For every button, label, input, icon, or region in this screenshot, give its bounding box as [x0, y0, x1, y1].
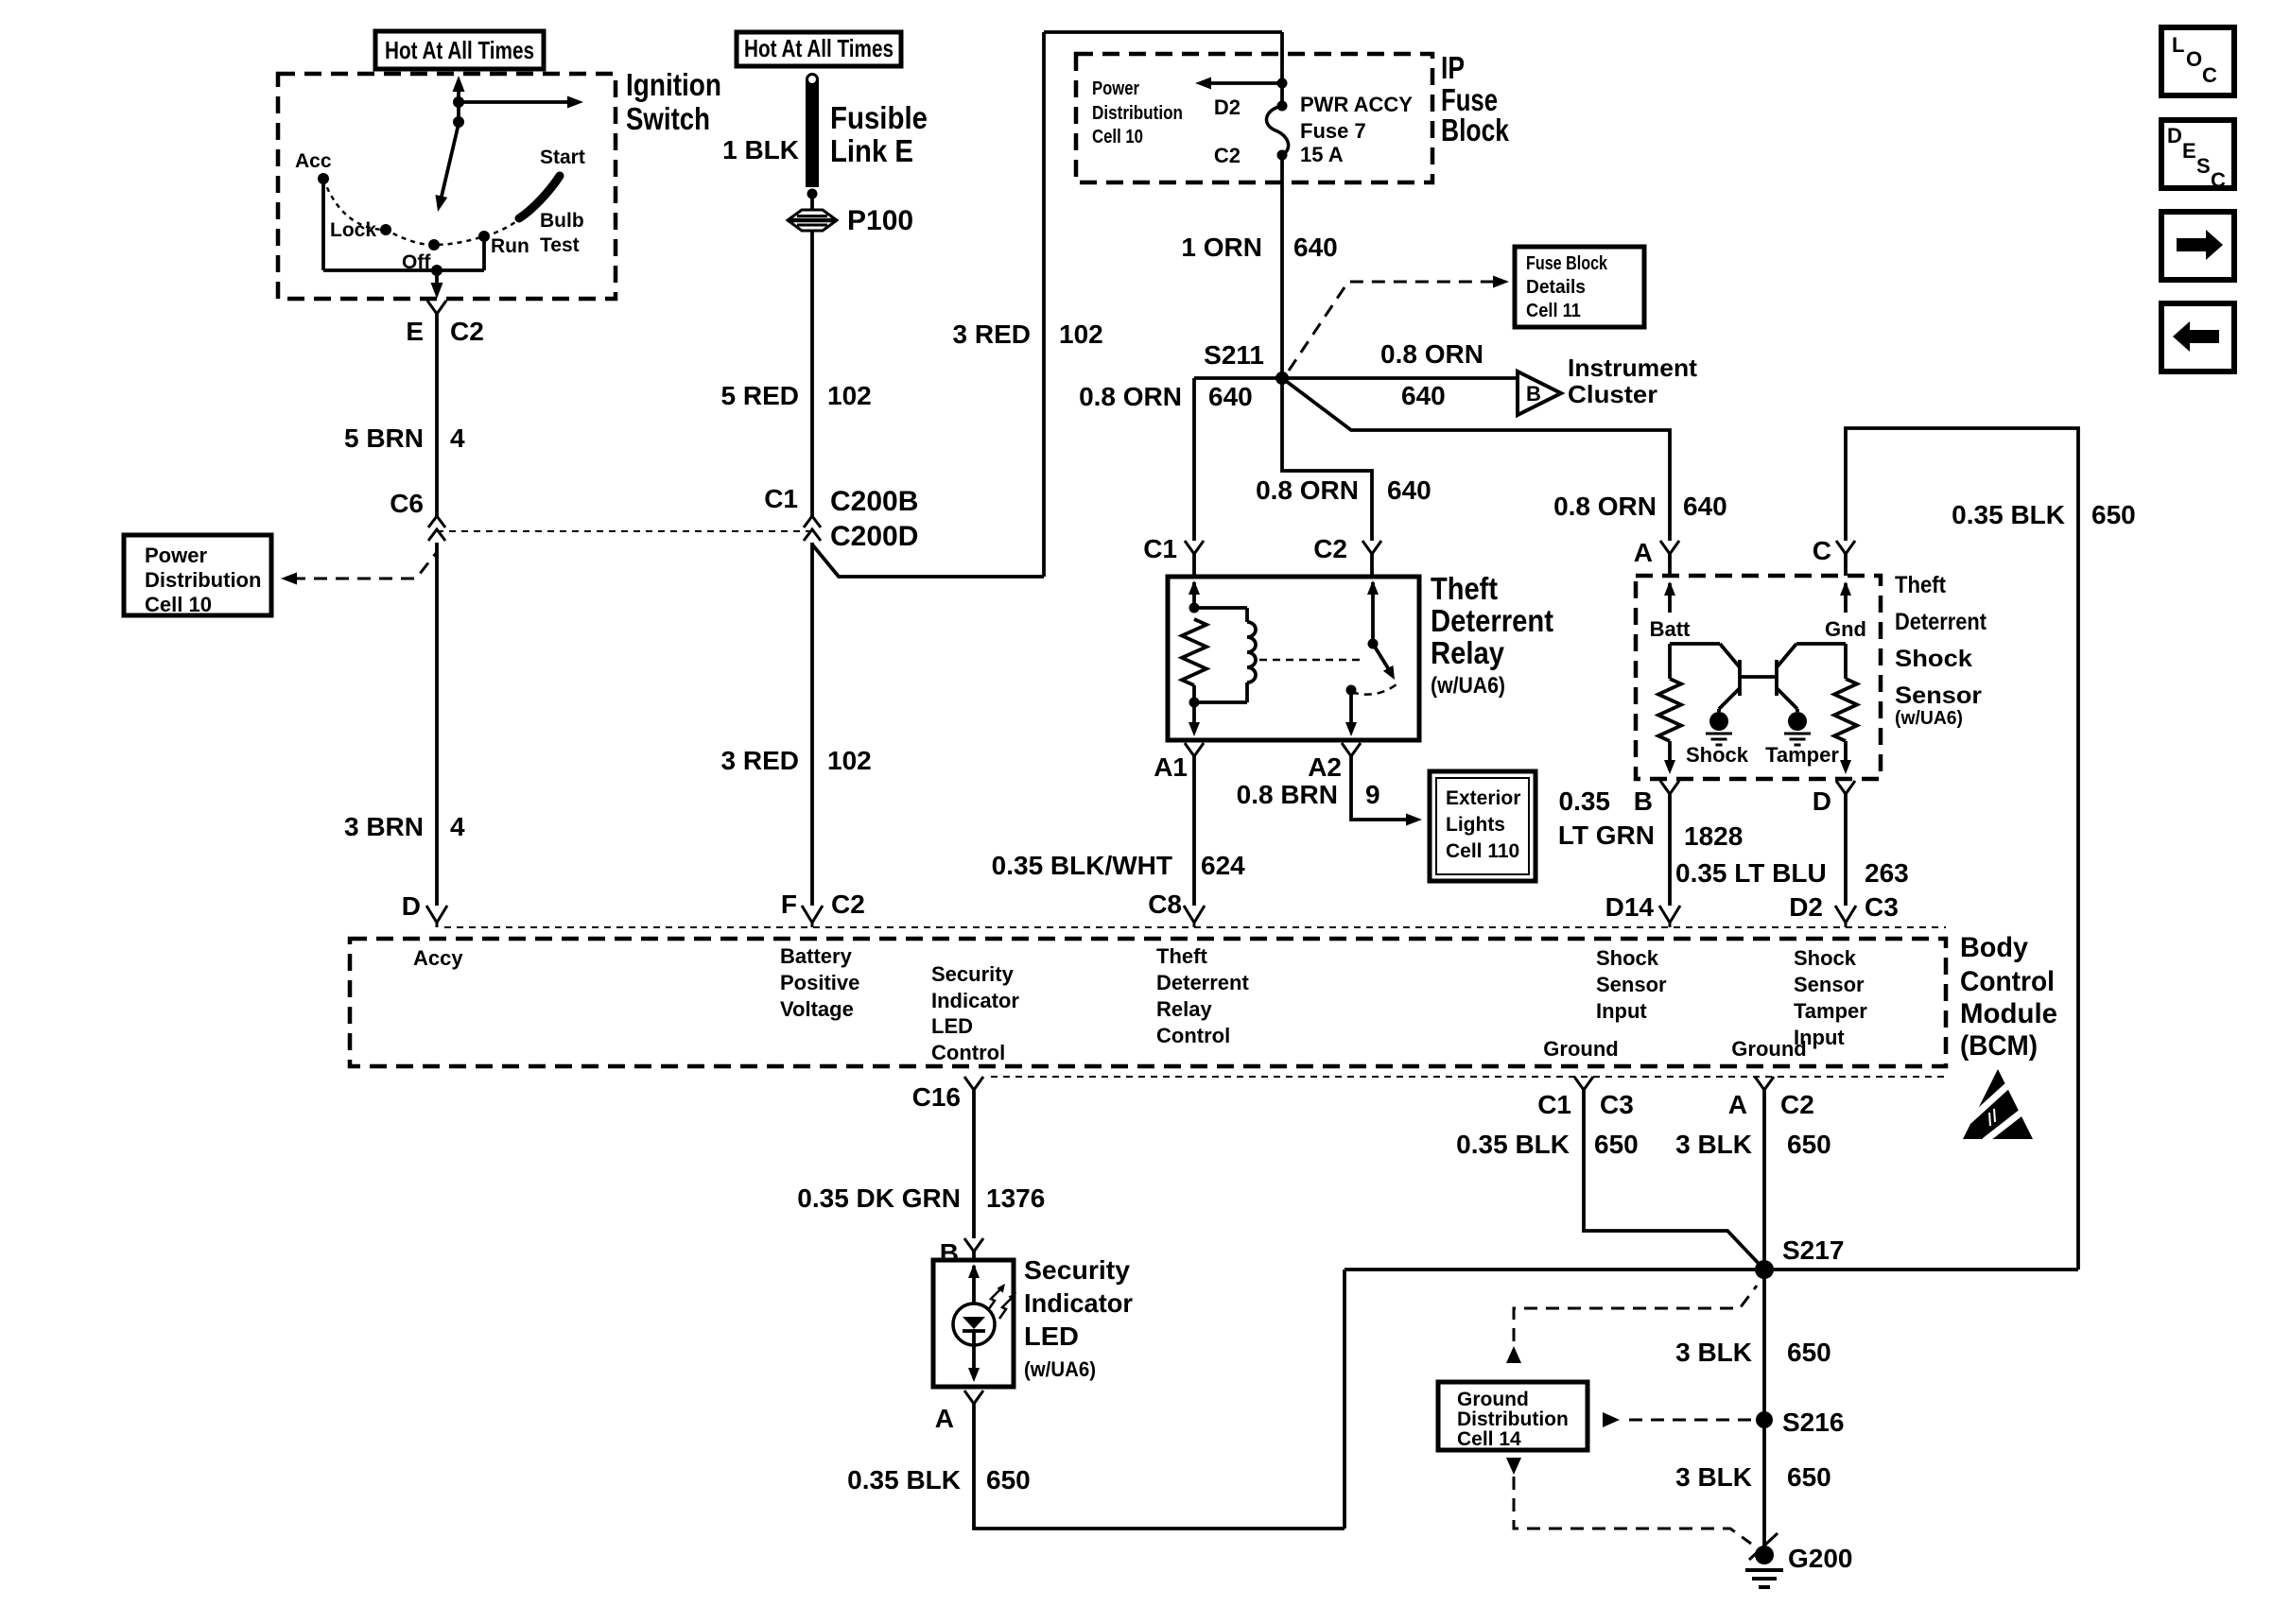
svg-text:Gnd: Gnd — [1825, 617, 1866, 641]
svg-text:Module: Module — [1960, 998, 2057, 1029]
svg-text:Bulb: Bulb — [540, 210, 584, 232]
reference box Ground Distribution Cell 14 — [1438, 1382, 1588, 1450]
theft deterrent shock sensor dashed box — [1636, 576, 1881, 779]
svg-text:650: 650 — [2091, 500, 2136, 529]
arrow into exterior lights box — [1406, 814, 1422, 826]
svg-text:1 ORN: 1 ORN — [1181, 233, 1262, 262]
svg-text:C200B: C200B — [830, 486, 918, 517]
wire batt node to resistor — [1668, 644, 1672, 679]
connector P100 symbol — [788, 210, 837, 231]
svg-text:IP: IP — [1441, 50, 1465, 85]
node splice S216 — [1756, 1411, 1773, 1428]
svg-text:Lock: Lock — [330, 219, 376, 241]
wire 0.8 BRN 9 jog to exterior lights — [1351, 756, 1409, 820]
node relay coil top — [1189, 603, 1200, 613]
svg-text:Distribution: Distribution — [1092, 103, 1183, 124]
security indicator LED box — [933, 1260, 1014, 1387]
wire from Run contact down — [482, 236, 486, 270]
svg-text:C6: C6 — [390, 489, 424, 518]
svg-text:(w/UA6): (w/UA6) — [1431, 673, 1505, 699]
svg-text:C2: C2 — [1214, 144, 1241, 167]
resistor shock right — [1834, 679, 1857, 741]
svg-text:Voltage: Voltage — [780, 997, 854, 1021]
thin dashed connector rail (BCM bottom) — [991, 1076, 1946, 1078]
fuse 7 element — [1266, 106, 1288, 155]
dashed... solid arrow to power distribution cell — [1206, 81, 1280, 85]
svg-text:Relay: Relay — [1156, 997, 1212, 1021]
dashed reference path upper (to S217) — [1514, 1286, 1757, 1363]
wire shock right resistor to pin D — [1844, 741, 1848, 762]
svg-text:C3: C3 — [1865, 892, 1899, 922]
svg-text:Lights: Lights — [1446, 814, 1505, 836]
svg-text:3 BLK: 3 BLK — [1675, 1338, 1752, 1367]
svg-text:640: 640 — [1387, 475, 1431, 505]
instrument cluster connector triangle — [1518, 371, 1561, 415]
svg-text:C1: C1 — [764, 484, 798, 513]
svg-text:Control: Control — [1960, 966, 2055, 997]
svg-text:Cell 10: Cell 10 — [1092, 127, 1143, 147]
pin C connector at shock sensor — [1836, 541, 1855, 554]
power feed box 'Hot At All Times' (battery) — [737, 32, 901, 66]
svg-text:Input: Input — [1596, 999, 1647, 1023]
svg-text:Positive: Positive — [780, 971, 859, 994]
dashed reference arrow to Power Distribution — [292, 552, 437, 579]
ignition thick arc Run-Start — [519, 176, 560, 218]
node ignition output junction — [431, 265, 442, 276]
svg-text:Relay: Relay — [1431, 635, 1505, 670]
svg-text:Deterrent: Deterrent — [1895, 609, 1987, 635]
wire relay A1 internal — [1192, 702, 1196, 724]
wire fusible link to P100 — [810, 194, 814, 211]
pin C2 connector at relay — [1362, 541, 1381, 554]
svg-text:C2: C2 — [1313, 534, 1347, 563]
node splice S211 — [1275, 371, 1289, 385]
svg-text:A1: A1 — [1154, 752, 1188, 782]
svg-text:4: 4 — [450, 812, 465, 841]
svg-text:102: 102 — [827, 746, 872, 775]
svg-text:C16: C16 — [912, 1082, 961, 1112]
svg-text:Ignition: Ignition — [626, 67, 721, 102]
ground shock element — [1709, 712, 1728, 731]
ground tamper element — [1788, 712, 1807, 731]
wire 0.35 LT BLU 263 to BCM D2 — [1844, 794, 1848, 906]
wire 1 ORN 640 fuse output — [1280, 155, 1284, 378]
relay switch arm — [1373, 644, 1390, 671]
pin A2 connector at relay — [1342, 743, 1361, 756]
wire relay C1 entry — [1192, 554, 1196, 577]
body control module dashed box — [350, 939, 1946, 1066]
wire S217 ground bus — [1345, 1268, 2078, 1271]
svg-text:Fusible: Fusible — [830, 100, 928, 135]
wire coil top link — [1194, 606, 1247, 610]
node relay common contact — [1346, 685, 1357, 696]
dashed reference path lower (to G200) — [1514, 1477, 1751, 1544]
svg-text:S211: S211 — [1204, 340, 1264, 370]
pin B connector at shock sensor — [1660, 781, 1679, 794]
wire fuse block riser — [1042, 32, 1046, 577]
svg-text:15 A: 15 A — [1300, 143, 1344, 166]
wire ignition feed stem — [457, 87, 460, 124]
svg-text:640: 640 — [1401, 381, 1446, 410]
wire 0.8 ORN 640 drop to relay C1 — [1192, 378, 1196, 541]
svg-text:P100: P100 — [847, 205, 913, 236]
wire relay C2 entry — [1370, 554, 1374, 577]
pin F connector at BCM — [802, 906, 823, 923]
svg-text:LT GRN: LT GRN — [1558, 821, 1655, 850]
svg-text:C1: C1 — [1537, 1090, 1571, 1119]
svg-text:650: 650 — [1787, 1130, 1831, 1159]
svg-text:Fuse 7: Fuse 7 — [1300, 119, 1366, 143]
svg-text:0.8 BRN: 0.8 BRN — [1237, 780, 1338, 809]
svg-text:Indicator: Indicator — [1024, 1288, 1133, 1318]
svg-text:Security: Security — [1024, 1255, 1130, 1285]
svg-text:Shock: Shock — [1596, 946, 1659, 970]
svg-text:O: O — [2186, 47, 2202, 71]
wire shock left resistor to pin B — [1668, 741, 1672, 762]
wire 0.35 BLK 650 BCM C1 ground — [1584, 1090, 1764, 1270]
svg-text:S217: S217 — [1782, 1235, 1844, 1265]
svg-text:Shock: Shock — [1686, 743, 1749, 767]
svg-text:0.8 ORN: 0.8 ORN — [1553, 492, 1657, 521]
node relay coil bottom — [1189, 698, 1200, 708]
svg-text:Sensor: Sensor — [1596, 973, 1667, 996]
svg-text:3 RED: 3 RED — [721, 746, 799, 775]
svg-text:Cell 14: Cell 14 — [1457, 1428, 1521, 1450]
svg-text:C2: C2 — [450, 317, 484, 346]
svg-text:D14: D14 — [1605, 892, 1655, 922]
node below fusible link — [807, 189, 818, 199]
svg-text:Deterrent: Deterrent — [1431, 603, 1553, 638]
wire 0.35 LT GRN 1828 to BCM D14 — [1668, 794, 1672, 906]
thin dashed connector rail (BCM top) — [444, 926, 1946, 928]
svg-text:263: 263 — [1865, 858, 1909, 888]
svg-text:Power: Power — [145, 544, 207, 567]
ignition rotor dashed arc — [323, 179, 515, 245]
wire 3 BLK 650 S216 to G200 — [1762, 1420, 1766, 1555]
svg-text:C: C — [2211, 168, 2226, 192]
svg-text:Exterior: Exterior — [1446, 787, 1520, 809]
button prev arrow — [2161, 303, 2234, 371]
power feed box 'Hot At All Times' (ignition) — [375, 31, 544, 69]
svg-text:1376: 1376 — [986, 1183, 1045, 1213]
arrow relay C1 internal up — [1189, 580, 1200, 595]
wire ignition output bus — [323, 268, 484, 272]
svg-text:650: 650 — [1787, 1462, 1831, 1492]
svg-text:Cell 10: Cell 10 — [145, 593, 212, 616]
svg-text:C: C — [1813, 536, 1831, 565]
connector break C6 — [428, 516, 445, 527]
svg-text:Theft: Theft — [1895, 572, 1947, 598]
reference box Fuse Block Details Cell 11 — [1515, 247, 1644, 327]
svg-text:Control: Control — [931, 1041, 1005, 1064]
svg-text:Cluster: Cluster — [1568, 380, 1657, 408]
svg-text:Start: Start — [540, 147, 585, 168]
svg-text:Acc: Acc — [295, 150, 332, 172]
wire fuse block top run — [1044, 30, 1282, 34]
svg-text:1828: 1828 — [1684, 821, 1743, 851]
svg-text:0.35 LT BLU: 0.35 LT BLU — [1675, 858, 1827, 888]
svg-text:9: 9 — [1365, 780, 1380, 809]
svg-text:G200: G200 — [1788, 1544, 1853, 1573]
svg-text:C2: C2 — [831, 890, 865, 919]
svg-text:Block: Block — [1441, 112, 1510, 147]
pin C16 connector under BCM — [964, 1077, 983, 1090]
wire shock C entry — [1844, 554, 1848, 576]
svg-text:Details: Details — [1526, 277, 1586, 298]
node ignition feed lower — [453, 116, 464, 128]
svg-text:Theft: Theft — [1431, 571, 1498, 606]
svg-text:Ground: Ground — [1543, 1037, 1618, 1061]
svg-text:Cell 110: Cell 110 — [1446, 840, 1519, 862]
pin D connector at shock sensor — [1836, 781, 1855, 794]
wire 0.35 BLK/WHT 624 to BCM C8 — [1192, 756, 1196, 906]
svg-text:Tamper: Tamper — [1765, 743, 1839, 767]
svg-text:A: A — [1634, 538, 1653, 567]
svg-text:102: 102 — [1059, 320, 1103, 349]
arrow ignition branch right — [567, 96, 583, 109]
pin D2 connector at BCM — [1835, 906, 1856, 923]
wire ignition output stem — [435, 270, 439, 288]
wire LED B entry — [972, 1252, 976, 1260]
svg-text:S216: S216 — [1782, 1408, 1844, 1437]
resistor shock left — [1658, 679, 1681, 741]
dashed actuator link — [1259, 659, 1362, 662]
svg-text:E: E — [406, 317, 424, 346]
svg-text:4: 4 — [450, 423, 465, 453]
button DESC — [2161, 120, 2234, 188]
svg-text:C3: C3 — [1600, 1090, 1634, 1119]
svg-text:650: 650 — [986, 1465, 1031, 1494]
svg-text:Distribution: Distribution — [1457, 1408, 1569, 1430]
svg-text:Ground: Ground — [1731, 1037, 1806, 1061]
wire gnd node to resistor — [1844, 644, 1848, 679]
svg-text:5 BRN: 5 BRN — [344, 423, 424, 453]
wire 0.35 DK GRN 1376 — [972, 1090, 976, 1238]
wire 3 BRN 4 segment — [435, 543, 439, 906]
button LOC — [2161, 27, 2234, 95]
ground G200 — [1755, 1546, 1774, 1564]
svg-text:0.35 BLK: 0.35 BLK — [1456, 1130, 1570, 1159]
svg-text:1 BLK: 1 BLK — [722, 135, 799, 164]
svg-text:640: 640 — [1683, 492, 1727, 521]
svg-text:0.35 BLK: 0.35 BLK — [1952, 500, 2065, 529]
svg-text:Instrument: Instrument — [1568, 354, 1697, 382]
svg-text:C2: C2 — [1780, 1090, 1814, 1119]
pin C1/C3 connector under BCM — [1574, 1077, 1593, 1090]
svg-text:Link E: Link E — [830, 133, 913, 168]
reference box Power Distribution Cell 10 (left) — [124, 535, 271, 615]
svg-text:A2: A2 — [1308, 752, 1342, 782]
arrow ignition output down — [431, 283, 443, 299]
wire shock A entry — [1668, 554, 1672, 576]
dashed switch travel arc — [1351, 684, 1397, 695]
wire S211 left branch — [1194, 376, 1282, 380]
svg-text:0.8 ORN: 0.8 ORN — [1256, 475, 1359, 505]
wire ignition feed branch right — [459, 100, 572, 104]
pin A/C2 connector under BCM — [1755, 1077, 1774, 1090]
svg-text:3 BLK: 3 BLK — [1675, 1130, 1752, 1159]
wire LED ground riser to S217 bus — [1343, 1270, 1346, 1529]
svg-text:Hot At All Times: Hot At All Times — [744, 34, 894, 62]
svg-text:Theft: Theft — [1156, 944, 1207, 968]
connector tick at G200 — [1749, 1533, 1778, 1560]
node fuse feed branch — [1277, 78, 1288, 89]
svg-text:0.35 BLK/WHT: 0.35 BLK/WHT — [992, 851, 1172, 880]
svg-text:624: 624 — [1201, 851, 1245, 880]
svg-text:A: A — [1728, 1090, 1747, 1119]
svg-text:0.8 ORN: 0.8 ORN — [1079, 382, 1182, 411]
arrow shock C internal up — [1840, 581, 1851, 596]
wire coil bottom link — [1245, 682, 1249, 702]
relay coil — [1247, 622, 1256, 682]
svg-text:D2: D2 — [1214, 95, 1241, 119]
svg-text:0.35 BLK: 0.35 BLK — [847, 1465, 961, 1494]
svg-text:Hot At All Times: Hot At All Times — [385, 36, 534, 64]
arrow shock A internal up — [1664, 581, 1675, 596]
svg-text:C200D: C200D — [830, 521, 918, 552]
svg-text:0.35: 0.35 — [1559, 786, 1611, 816]
ESD warning symbol — [1963, 1069, 2033, 1139]
svg-text:Sensor: Sensor — [1794, 973, 1865, 996]
node ignition feed upper — [453, 96, 464, 108]
node Lock contact — [380, 224, 391, 235]
pin D connector at BCM — [426, 906, 447, 923]
svg-text:0.35 DK GRN: 0.35 DK GRN — [797, 1183, 961, 1213]
wire S211 down-right jog to relay C2 — [1282, 378, 1372, 541]
svg-text:F: F — [781, 890, 797, 919]
svg-text:3 BLK: 3 BLK — [1675, 1462, 1752, 1492]
pin C8 connector at BCM — [1184, 906, 1205, 923]
node fuse terminal C2 — [1277, 150, 1288, 161]
node Acc contact — [318, 173, 329, 184]
svg-text:(w/UA6): (w/UA6) — [1024, 1357, 1096, 1381]
svg-text:Test: Test — [540, 234, 580, 256]
IP fuse block dashed outline — [1076, 54, 1432, 182]
wire branch C200 to fuse block riser — [812, 544, 1044, 577]
svg-text:640: 640 — [1293, 233, 1338, 262]
fusible link E body — [806, 79, 819, 187]
svg-text:C8: C8 — [1148, 890, 1182, 919]
svg-text:C: C — [2202, 63, 2217, 87]
wire ignition wiper — [441, 124, 459, 200]
svg-text:Shock: Shock — [1895, 646, 1972, 672]
dashed reference arrow to S216 — [1603, 1412, 1620, 1427]
svg-text:D: D — [2167, 124, 2182, 147]
svg-text:102: 102 — [827, 381, 872, 410]
svg-text:Accy: Accy — [413, 946, 463, 970]
svg-text:L: L — [2172, 33, 2184, 57]
svg-text:Deterrent: Deterrent — [1156, 971, 1249, 994]
LED symbol — [968, 1264, 980, 1278]
svg-text:Battery: Battery — [780, 944, 853, 968]
connector break C200B/C200D — [804, 516, 821, 527]
svg-text:LED: LED — [1024, 1322, 1079, 1351]
wire S211 diagonal to shock sensor feed — [1282, 378, 1670, 541]
node relay switch pivot — [1368, 639, 1379, 649]
arrow up to hot feed — [453, 76, 465, 92]
svg-text:LED: LED — [931, 1014, 973, 1038]
wire fuse feed drop — [1280, 32, 1284, 106]
svg-text:Ground: Ground — [1457, 1389, 1529, 1410]
svg-text:Shock: Shock — [1794, 946, 1857, 970]
wire from Acc contact down — [321, 179, 325, 270]
node splice S217 — [1755, 1260, 1774, 1279]
svg-text:Indicator: Indicator — [931, 989, 1019, 1012]
svg-text:D2: D2 — [1789, 892, 1823, 922]
svg-text:D: D — [402, 891, 421, 921]
svg-text:Cell 11: Cell 11 — [1526, 301, 1581, 321]
svg-text:PWR ACCY: PWR ACCY — [1300, 93, 1413, 116]
svg-text:650: 650 — [1787, 1338, 1831, 1367]
wire 5 RED 102 segment — [810, 230, 814, 516]
fusible link terminal ring — [807, 75, 818, 85]
svg-text:5 RED: 5 RED — [721, 381, 799, 410]
svg-text:S: S — [2196, 154, 2211, 178]
ignition switch dashed outline — [278, 74, 616, 299]
wire S211 to instrument cluster — [1282, 376, 1518, 380]
svg-text:B: B — [1634, 786, 1653, 816]
pin D14 connector at BCM — [1659, 906, 1680, 923]
node Off contact — [428, 239, 440, 251]
pin E/C2 connector at ignition — [427, 301, 446, 314]
svg-text:D: D — [1813, 786, 1831, 816]
svg-text:A: A — [935, 1404, 954, 1433]
resistor relay (parallel) — [1182, 619, 1206, 685]
wire 3 RED 102 segment to BCM — [810, 543, 814, 906]
svg-text:640: 640 — [1208, 382, 1253, 411]
arrow relay C2 internal up — [1367, 580, 1379, 595]
theft deterrent relay box — [1168, 577, 1419, 740]
svg-text:Fuse Block: Fuse Block — [1526, 253, 1608, 274]
svg-text:650: 650 — [1594, 1130, 1639, 1159]
svg-text:Power: Power — [1092, 78, 1139, 99]
svg-text:Control: Control — [1156, 1024, 1230, 1047]
svg-text:Switch: Switch — [626, 101, 710, 136]
dashed tie line C6 to C200 — [437, 530, 812, 532]
wire 5 BRN 4 segment — [435, 314, 439, 516]
svg-text:Sensor: Sensor — [1895, 682, 1982, 709]
transistor pair shock/tamper — [1670, 642, 1720, 646]
svg-text:3 BRN: 3 BRN — [344, 812, 424, 841]
pin A connector at shock sensor — [1660, 541, 1679, 554]
dashed reference arrow to Fuse Block Details — [1289, 282, 1496, 371]
node Run contact — [478, 231, 490, 242]
svg-text:Tamper: Tamper — [1794, 999, 1867, 1023]
svg-text:Batt: Batt — [1650, 617, 1691, 641]
reference box Exterior Lights Cell 110 — [1430, 771, 1536, 881]
arrow ignition wiper tip — [436, 195, 448, 212]
pin A connector at LED — [964, 1391, 983, 1404]
svg-text:B: B — [940, 1238, 959, 1268]
pin C1 connector at relay — [1185, 541, 1204, 554]
svg-text:(w/UA6): (w/UA6) — [1895, 708, 1963, 729]
wire shock sensor C ground riser — [1846, 428, 2078, 1270]
svg-text:0.8 ORN: 0.8 ORN — [1380, 339, 1484, 369]
svg-text:B: B — [1526, 382, 1541, 406]
svg-text:E: E — [2182, 139, 2196, 163]
svg-text:Security: Security — [931, 962, 1015, 986]
svg-text:Run: Run — [491, 235, 529, 257]
node fuse terminal D2 — [1277, 101, 1288, 112]
svg-text:Body: Body — [1960, 932, 2028, 963]
svg-text:Distribution: Distribution — [145, 568, 261, 592]
wire 3 BLK 650 S217 to S216 — [1762, 1270, 1766, 1420]
button next arrow — [2161, 212, 2234, 280]
pin B connector at LED — [964, 1238, 983, 1252]
wire relay common to A2 — [1349, 690, 1353, 724]
wire 3 BLK 650 BCM A ground — [1762, 1090, 1766, 1270]
svg-text:3 RED: 3 RED — [953, 320, 1031, 349]
